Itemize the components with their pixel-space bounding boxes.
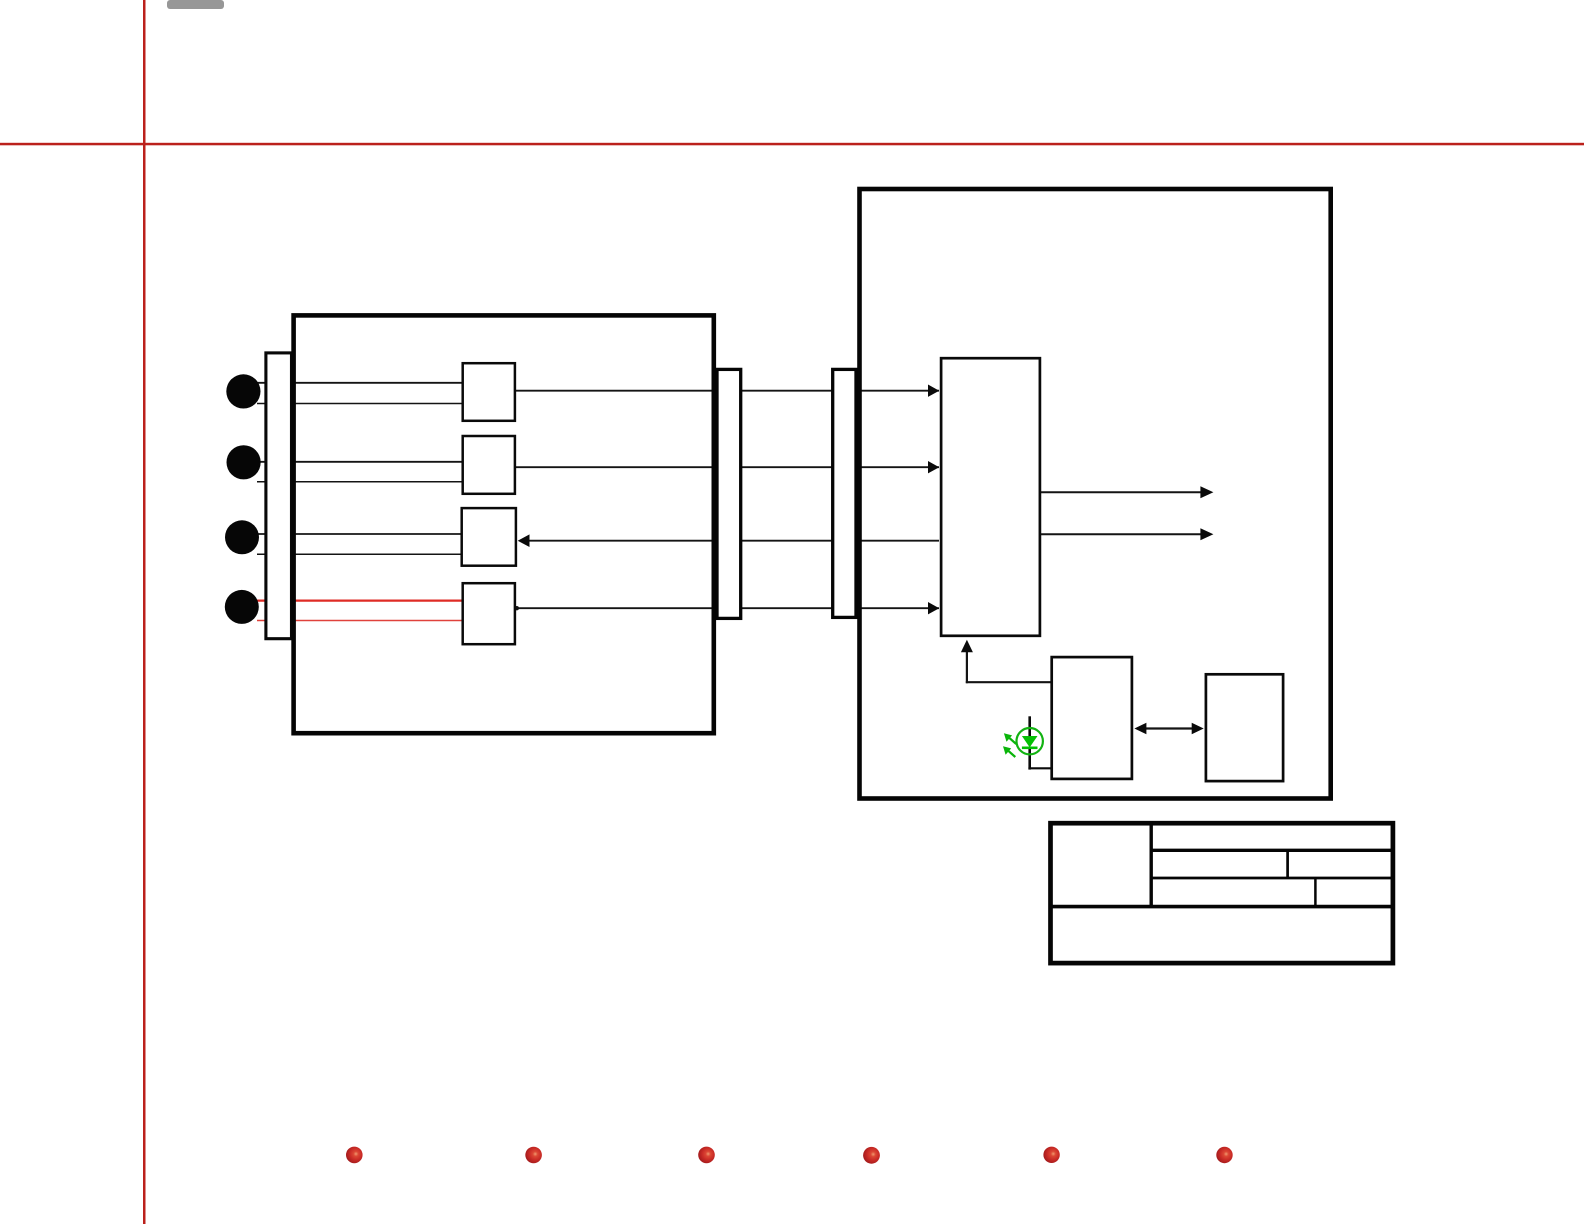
wire pin3 lower (257, 553, 463, 555)
mounting dot 4 (863, 1147, 880, 1164)
title block row2 line (1151, 877, 1394, 880)
arrowhead toward X1 (1134, 723, 1146, 735)
LED D1 cathode lead (1028, 748, 1031, 770)
bus wire row4 (516, 607, 939, 609)
LED D1 wire to X1 (1028, 767, 1051, 769)
connector pin 1 (226, 374, 260, 408)
arrowhead into U1 bottom (961, 640, 973, 653)
LED D1 cathode bar (1022, 746, 1038, 749)
title block row1 line (1151, 849, 1394, 852)
junction dot at B4 output (515, 606, 519, 610)
buffer block B3 (462, 508, 516, 566)
mounting dot 2 (525, 1147, 542, 1164)
LED D1 triangle (1022, 736, 1038, 747)
LED emission arrow 2 (1008, 750, 1016, 757)
LED emission arrow 1 (1009, 737, 1017, 744)
arrowhead into block B3 (518, 534, 530, 547)
connector pin 2 (227, 445, 261, 479)
wire pin1 upper (256, 382, 463, 384)
arrowhead into U1 row1 (928, 385, 939, 397)
LED D1 anode stub (1028, 716, 1031, 737)
transceiver module outline (left block) (294, 315, 714, 733)
sheet margin vertical red line (143, 0, 146, 1224)
oscillator block X1 (1052, 657, 1132, 779)
mounting dot 6 (1216, 1147, 1232, 1163)
LED D1 circle (1016, 728, 1042, 754)
wire pin2 upper (256, 461, 463, 463)
mounting dot 3 (698, 1147, 715, 1164)
clock feed wire vertical (966, 651, 968, 683)
bidirectional wire X1-X2 (1144, 727, 1195, 729)
wire pin4 lower red (257, 620, 463, 622)
arrowhead output 1 (1200, 486, 1213, 498)
title block small divider row2 (1286, 850, 1289, 878)
buffer block B2 (463, 436, 515, 494)
buffer block B4 (463, 583, 515, 644)
title block outer frame (1051, 823, 1393, 963)
MCU U1 (941, 358, 1040, 636)
controller module outline (right block) (860, 189, 1331, 799)
support block X2 (1206, 674, 1283, 781)
wire pin3 upper (256, 533, 463, 535)
output wire 1 (1041, 491, 1201, 493)
bus wire row1 (516, 390, 939, 392)
arrowhead toward X2 (1192, 723, 1204, 735)
bus wire row3 (return) (528, 540, 939, 542)
bus wire row2 (516, 466, 939, 468)
title block bottom divider (1049, 905, 1394, 909)
wire pin1 lower (257, 403, 463, 405)
inter-board header bar A (717, 369, 741, 618)
connector J1 body (266, 353, 292, 639)
clock feed wire horizontal (966, 681, 1051, 683)
arrowhead into U1 row2 (928, 461, 939, 473)
arrowhead into U1 row4 (928, 602, 939, 614)
connector pin 3 (225, 520, 259, 554)
wire pin4 upper red (256, 599, 463, 601)
inter-board header bar B (833, 369, 856, 617)
faint header text remnant (167, 0, 224, 9)
output wire 2 (1041, 533, 1201, 535)
mounting dot 1 (346, 1147, 363, 1164)
arrowhead output 2 (1200, 528, 1213, 540)
connector pin 4 (225, 590, 259, 624)
buffer block B1 (463, 363, 515, 421)
title block small divider row3 (1314, 878, 1317, 907)
wire pin2 lower (257, 481, 463, 483)
title block vertical divider (1149, 821, 1152, 907)
sheet margin horizontal red line (0, 143, 1584, 146)
mounting dot 5 (1043, 1147, 1059, 1163)
